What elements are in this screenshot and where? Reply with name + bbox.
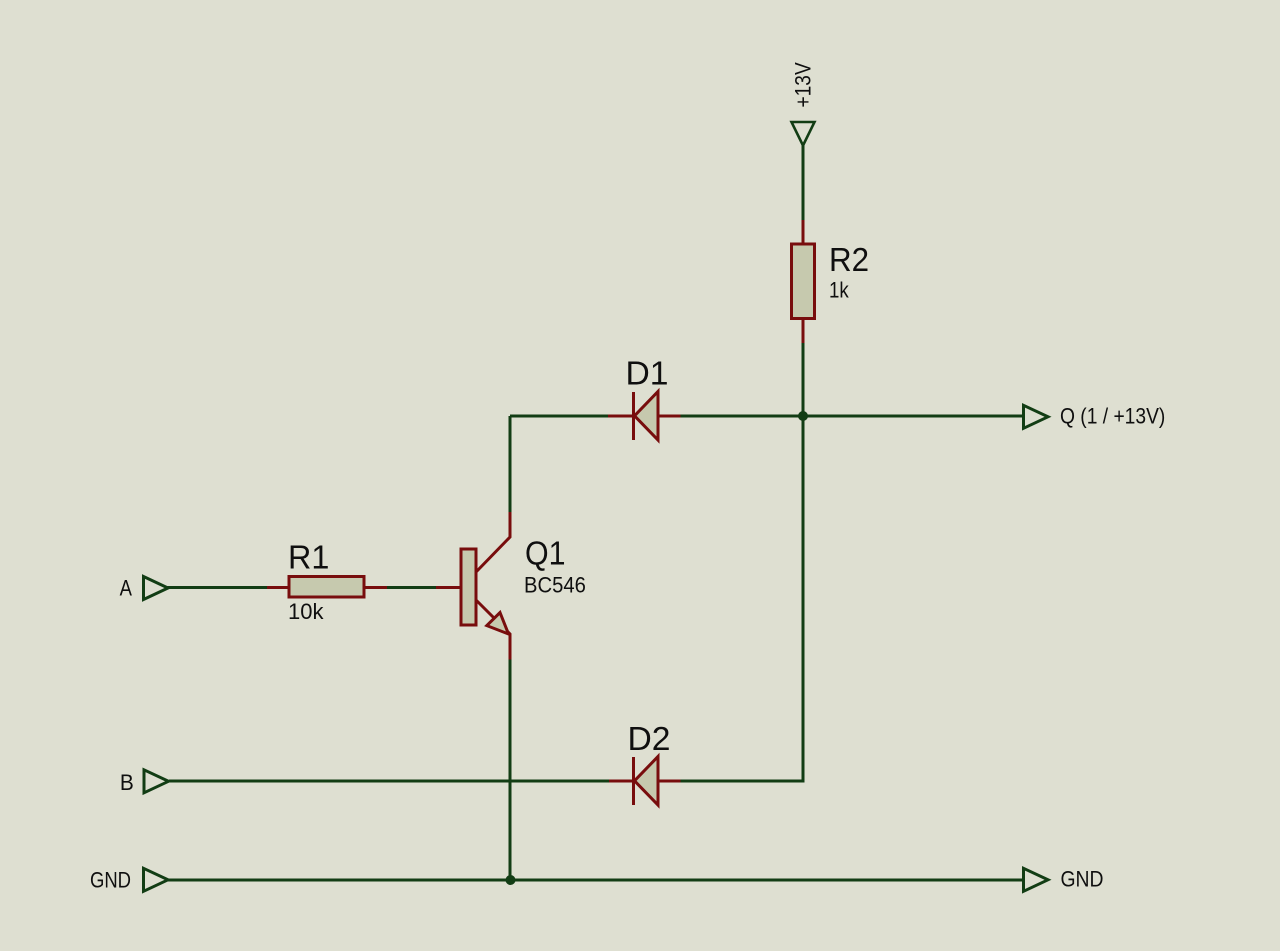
diode D1 bbox=[608, 392, 681, 441]
svg-text:1k: 1k bbox=[829, 279, 849, 303]
wire B to D2 bbox=[169, 780, 609, 783]
node junction emitter/GND bbox=[506, 875, 516, 885]
svg-text:Q1: Q1 bbox=[525, 534, 565, 571]
resistor R1 bbox=[267, 577, 387, 598]
transistor Q1 bbox=[436, 512, 510, 660]
diode D2 bbox=[609, 757, 681, 806]
terminal A bbox=[144, 577, 169, 600]
wire R2 to node bbox=[802, 343, 805, 416]
resistor R2 bbox=[792, 220, 815, 343]
wire GND net bbox=[168, 879, 1025, 882]
wire R1 to base bbox=[387, 586, 436, 589]
wire collector vertical bbox=[509, 416, 512, 512]
terminal GND left bbox=[144, 868, 169, 891]
wire emitter vertical bbox=[509, 660, 512, 881]
supply +13V symbol bbox=[792, 122, 815, 146]
wire corner up to node bbox=[802, 416, 805, 783]
wire top net left segment bbox=[510, 415, 608, 418]
svg-text:GND: GND bbox=[1061, 867, 1104, 891]
svg-text:A: A bbox=[120, 577, 133, 601]
svg-text:Q (1 / +13V): Q (1 / +13V) bbox=[1060, 404, 1165, 428]
svg-text:BC546: BC546 bbox=[524, 574, 586, 598]
svg-text:R2: R2 bbox=[829, 241, 869, 278]
svg-text:GND: GND bbox=[90, 869, 131, 893]
wire D2 to corner bbox=[681, 780, 804, 783]
svg-text:R1: R1 bbox=[288, 538, 329, 575]
svg-text:10k: 10k bbox=[288, 599, 324, 624]
wire top net right segment bbox=[681, 415, 1025, 418]
node junction at R2/D1/Q bbox=[798, 411, 808, 421]
terminal Q output bbox=[1024, 405, 1049, 428]
terminal GND right bbox=[1024, 868, 1049, 891]
wire A to R1 bbox=[168, 586, 268, 589]
svg-text:B: B bbox=[120, 771, 134, 796]
svg-text:+13V: +13V bbox=[791, 62, 816, 107]
wire +13V vertical bbox=[802, 146, 805, 221]
svg-text:D1: D1 bbox=[626, 356, 669, 393]
terminal B bbox=[144, 770, 169, 793]
svg-text:D2: D2 bbox=[628, 721, 671, 758]
